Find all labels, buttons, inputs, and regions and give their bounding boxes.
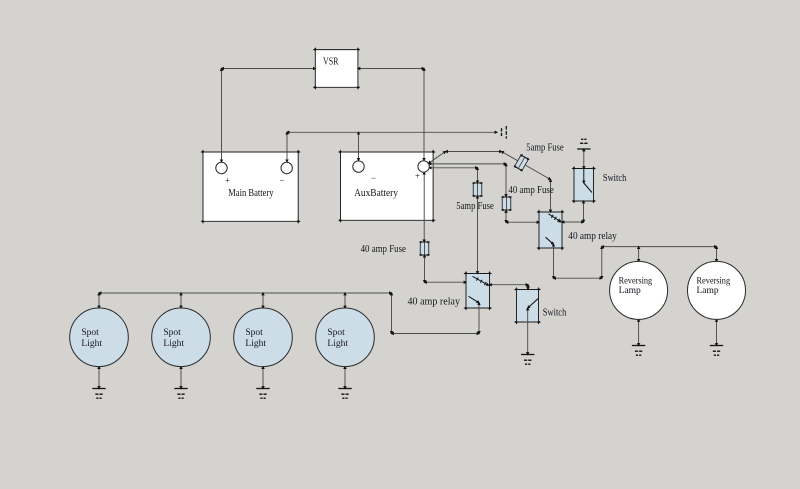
svg-text:−: − xyxy=(371,173,376,183)
svg-text:AuxBattery: AuxBattery xyxy=(354,188,399,199)
svg-text:40 amp relay: 40 amp relay xyxy=(568,231,617,242)
svg-text:Lamp: Lamp xyxy=(619,286,641,296)
svg-text:Switch: Switch xyxy=(603,173,627,184)
svg-text:+: + xyxy=(415,171,420,181)
svg-text:Light: Light xyxy=(245,339,266,349)
svg-text:Spot: Spot xyxy=(327,328,345,338)
svg-text:Spot: Spot xyxy=(163,328,181,338)
svg-text:40 amp Fuse: 40 amp Fuse xyxy=(361,244,407,255)
svg-text:5amp Fuse: 5amp Fuse xyxy=(456,201,494,212)
svg-text:40 amp relay: 40 amp relay xyxy=(408,297,461,308)
svg-text:5amp Fuse: 5amp Fuse xyxy=(526,143,564,154)
svg-text:40 amp Fuse: 40 amp Fuse xyxy=(508,185,554,196)
svg-text:VSR: VSR xyxy=(323,57,339,68)
svg-text:Light: Light xyxy=(163,339,184,349)
svg-text:Light: Light xyxy=(81,339,102,349)
svg-text:−: − xyxy=(279,176,284,186)
svg-text:Light: Light xyxy=(327,339,348,349)
svg-text:Spot: Spot xyxy=(245,328,263,338)
svg-text:Spot: Spot xyxy=(81,328,99,338)
svg-text:+: + xyxy=(225,175,230,185)
svg-text:Lamp: Lamp xyxy=(697,286,719,296)
svg-text:Main Battery: Main Battery xyxy=(228,188,274,199)
svg-text:Switch: Switch xyxy=(543,307,567,318)
